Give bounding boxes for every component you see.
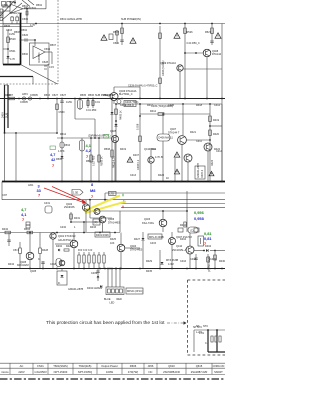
svg-text:R508: R508: [104, 148, 111, 151]
svg-text:R432: R432: [2, 228, 9, 231]
svg-text:D504: D504: [64, 144, 71, 147]
svg-text:1/2W: 1/2W: [66, 101, 72, 104]
svg-text:R507: R507: [50, 44, 57, 47]
svg-text:C502: C502: [30, 7, 37, 10]
svg-text:R502: R502: [36, 4, 43, 7]
svg-text:CN505: CN505: [20, 101, 28, 104]
svg-text:2SC5388-D/R: 2SC5388-D/R: [163, 370, 180, 374]
svg-text:0,958: 0,958: [194, 216, 205, 221]
svg-text:7: 7: [52, 163, 54, 168]
svg-text:R431: R431: [74, 217, 81, 220]
svg-text:RJ4558D: RJ4558D: [38, 52, 41, 63]
svg-text:C432: C432: [60, 226, 67, 229]
svg-text:Q401 KTC3199: Q401 KTC3199: [58, 235, 76, 238]
svg-text:(C): (C): [190, 230, 194, 233]
svg-text:R410: R410: [180, 224, 187, 227]
svg-text:C527: C527: [52, 94, 59, 97]
svg-text:1K: 1K: [166, 177, 169, 180]
svg-text:4.7K·B: 4.7K·B: [155, 156, 163, 159]
svg-text:DTA144: DTA144: [212, 53, 222, 56]
svg-text:2SC1815L-A: 2SC1815L-A: [172, 249, 187, 252]
svg-text:C416: C416: [180, 260, 187, 263]
svg-text:D504: D504: [56, 158, 63, 161]
svg-text:100W: 100W: [106, 370, 113, 374]
svg-text:4.7K: 4.7K: [30, 24, 35, 27]
svg-text:7: 7: [38, 193, 40, 198]
svg-text:C404: C404: [120, 104, 127, 107]
svg-text:R50_C: R50_C: [103, 94, 111, 97]
svg-text:KSA-733G: KSA-733G: [142, 222, 154, 225]
svg-text:DTA144ES: DTA144ES: [108, 222, 121, 225]
svg-text:1.5E: 1.5E: [73, 192, 78, 195]
svg-text:4.3M: 4.3M: [168, 263, 174, 266]
svg-text:R424: R424: [211, 159, 214, 166]
svg-text:(C): (C): [94, 221, 98, 224]
svg-text:R422: R422: [214, 148, 221, 151]
svg-text:R526: R526: [187, 31, 194, 34]
svg-text:MPLD (2P.1C): MPLD (2P.1C): [127, 290, 143, 293]
svg-text:NC: NC: [149, 370, 153, 374]
svg-text:C·: C·: [205, 342, 208, 345]
svg-text:R R C R C R: R R C R C R: [78, 249, 93, 252]
svg-text:7: 7: [22, 217, 24, 222]
svg-text:R506: R506: [14, 31, 21, 34]
svg-text:D407: D407: [133, 154, 140, 157]
svg-text:MTZ J6.8B: MTZ J6.8B: [166, 259, 179, 262]
svg-text:2SA933S: 2SA933S: [64, 206, 75, 209]
svg-text:C505: C505: [22, 18, 29, 21]
svg-text:C405: C405: [168, 104, 175, 107]
svg-text:R50: R50: [86, 160, 91, 163]
svg-text:Q610: Q610: [168, 364, 175, 368]
svg-text:R427: R427: [134, 238, 141, 241]
svg-text:AC: AC: [20, 364, 24, 368]
svg-text:KRC102M: KRC102M: [17, 264, 29, 267]
svg-text:R420: R420: [213, 133, 220, 136]
svg-text:D500: D500: [22, 53, 29, 56]
svg-text:R414: R414: [24, 228, 31, 231]
svg-text:R434: R434: [8, 263, 15, 266]
svg-text:(D)PWM+B (PROT.): (D)PWM+B (PROT.): [88, 135, 111, 138]
svg-text:(C)5SC-XXXX: (C)5SC-XXXX: [208, 256, 211, 272]
svg-text:C501: C501: [2, 4, 9, 7]
svg-text:RED: RED: [117, 298, 122, 301]
svg-text:1.87K: 1.87K: [58, 150, 65, 153]
svg-text:D501 GMA01-287B: D501 GMA01-287B: [60, 18, 82, 21]
svg-text:GR-AT/P02-2: GR-AT/P02-2: [58, 239, 74, 242]
svg-text:C528: C528: [42, 61, 49, 64]
svg-text:R527: R527: [205, 31, 212, 34]
svg-text:R413 4.7K: R413 4.7K: [113, 156, 116, 168]
svg-text:R426: R426: [66, 245, 73, 248]
svg-text:D406·MA111: D406·MA111: [159, 137, 174, 140]
svg-text:R407: R407: [5, 94, 12, 97]
svg-text:NTC: NTC: [203, 325, 208, 328]
svg-text:Q403: Q403: [144, 218, 151, 221]
svg-text:0.15·R50: 0.15·R50: [93, 155, 96, 166]
svg-text:D501: D501: [10, 50, 17, 53]
svg-text:0.056·R: 0.056·R: [125, 104, 134, 107]
svg-text:C406 0.1: C406 0.1: [137, 159, 140, 170]
svg-text:J2P4: J2P4: [22, 93, 28, 96]
svg-text:NPT-1535Q: NPT-1535Q: [78, 370, 92, 374]
svg-text:CN505: CN505: [30, 94, 38, 97]
svg-text:R506: R506: [88, 94, 95, 97]
svg-text:GMA01-287B: GMA01-287B: [68, 288, 83, 291]
svg-text:NPT-1530F: NPT-1530F: [54, 370, 68, 374]
svg-text:C·: C·: [38, 258, 41, 261]
svg-text:FS01: FS01: [37, 364, 44, 368]
svg-text:C408: C408: [190, 258, 197, 261]
svg-text:SUB POWER(9V): SUB POWER(9V): [121, 18, 141, 21]
svg-text:C431: C431: [44, 202, 51, 205]
svg-text:C409: C409: [91, 272, 98, 275]
svg-text:C526: C526: [22, 34, 29, 37]
svg-text:C406 (KAMA): C406 (KAMA): [162, 60, 165, 76]
svg-text:BLI/TR11_C: BLI/TR11_C: [119, 93, 133, 96]
svg-text:IC501: IC501: [9, 1, 16, 4]
svg-text:0.01: 0.01: [95, 101, 100, 104]
svg-text:R418: R418: [196, 104, 203, 107]
svg-text:C504: C504: [44, 48, 51, 51]
svg-text:C412: C412: [214, 104, 221, 107]
svg-text:M8: M8: [90, 188, 96, 193]
svg-text:GMA01-2878: GMA01-2878: [197, 163, 200, 178]
svg-text:7: 7: [86, 154, 88, 159]
svg-text:10K: 10K: [110, 242, 115, 245]
svg-text:C413: C413: [130, 174, 137, 177]
svg-text:Q410: Q410: [176, 245, 183, 248]
svg-text:SUB: SUB: [6, 113, 9, 118]
svg-text:Output Power: Output Power: [101, 364, 118, 368]
svg-text:R503: R503: [24, 7, 31, 10]
svg-text:0.01:R50_C: 0.01:R50_C: [187, 42, 201, 45]
svg-text:C411: C411: [196, 140, 202, 143]
svg-text:0,956: 0,956: [194, 210, 205, 215]
svg-text:D402 GMA01: D402 GMA01: [87, 287, 103, 290]
svg-text:240V: 240V: [2, 112, 5, 118]
svg-text:C410: C410: [150, 148, 157, 151]
svg-text:Q615: Q615: [196, 364, 203, 368]
svg-text:IC501(1/2): IC501(1/2): [10, 12, 22, 15]
svg-text:R412: R412: [150, 110, 157, 113]
svg-text:D402: D402: [56, 245, 63, 248]
svg-text:R433: R433: [90, 226, 97, 229]
svg-text:D404: D404: [205, 245, 212, 248]
svg-text:R435: R435: [146, 270, 153, 273]
svg-text:R425: R425: [110, 238, 117, 241]
svg-text:D404: D404: [180, 238, 187, 241]
svg-text:J456: J456: [148, 364, 154, 368]
svg-text:D502: D502: [21, 29, 28, 32]
svg-text:R505: R505: [80, 94, 87, 97]
svg-text:rsions: rsions: [1, 370, 9, 374]
svg-text:C415: C415: [150, 242, 157, 245]
svg-text:LED: LED: [110, 302, 115, 305]
svg-text:C517: C517: [13, 249, 20, 252]
svg-text:T601(S64S): T601(S64S): [53, 364, 68, 368]
svg-text:T602(2LB): T602(2LB): [79, 364, 92, 368]
svg-text:DTA144ES: DTA144ES: [130, 249, 143, 252]
svg-text:L-01: L-01: [199, 332, 205, 335]
svg-text:CN60-CN: CN60-CN: [213, 364, 225, 368]
svg-text:S600/T: S600/T: [214, 370, 223, 374]
svg-text:R429: R429: [146, 260, 153, 263]
svg-text:2SA1887-D/R: 2SA1887-D/R: [191, 370, 208, 374]
svg-text:R419: R419: [120, 148, 127, 151]
svg-text:C527: C527: [60, 94, 67, 97]
svg-text:R508 1K: R508 1K: [101, 156, 104, 166]
svg-text:7: 7: [91, 194, 93, 199]
svg-text:R512: R512: [60, 133, 67, 136]
svg-text:DTA144·T: DTA144·T: [168, 132, 180, 135]
svg-text:J201: J201: [28, 184, 34, 187]
svg-text:0.056: 0.056: [137, 123, 140, 130]
svg-text:470(7W): 470(7W): [128, 370, 138, 374]
svg-text:C520: C520: [113, 42, 120, 45]
svg-text:R505: R505: [4, 25, 11, 28]
svg-text:C418: C418: [50, 263, 57, 266]
svg-text:R430: R430: [219, 260, 225, 263]
svg-text:1.6A/250V: 1.6A/250V: [34, 370, 47, 374]
svg-text:R419: R419: [213, 119, 220, 122]
svg-text:R417: R417: [147, 104, 154, 107]
svg-text:Q405: Q405: [30, 270, 37, 273]
svg-text:CN?: CN?: [2, 194, 8, 197]
svg-text:0.15: 0.15: [49, 66, 54, 69]
svg-text:SP: SP: [196, 325, 200, 328]
svg-text:D·: D·: [58, 282, 61, 285]
svg-text:LTD: LTD: [110, 193, 115, 196]
svg-text:C503: C503: [6, 29, 13, 32]
svg-text:4.7K: 4.7K: [10, 58, 15, 61]
svg-text:D503: D503: [44, 94, 51, 97]
svg-text:R423: R423: [158, 174, 165, 177]
svg-text:R408 1K: R408 1K: [120, 110, 123, 120]
svg-text:0.01·R50: 0.01·R50: [86, 109, 97, 112]
svg-text:MPL-D 2R1B: MPL-D 2R1B: [149, 236, 164, 239]
svg-text:R421: R421: [190, 131, 197, 134]
svg-text:R428: R428: [42, 249, 49, 252]
svg-text:D401 R426: D401 R426: [96, 234, 109, 237]
svg-text:R606: R606: [130, 364, 137, 368]
svg-text:220V: 220V: [18, 370, 24, 374]
svg-text:R529: R529: [10, 38, 17, 41]
svg-text:This protection circuit has be: This protection circuit has been applied…: [46, 320, 165, 326]
svg-text:D405·2: D405·2: [201, 169, 204, 178]
